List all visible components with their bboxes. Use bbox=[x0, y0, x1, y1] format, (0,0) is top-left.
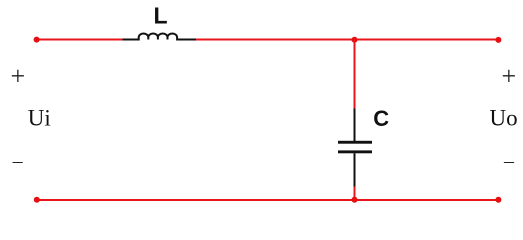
wire top-left red segment bbox=[37, 39, 124, 41]
polarity minus (output) bbox=[503, 150, 515, 172]
svg-text:–: – bbox=[12, 150, 24, 172]
inductor L bbox=[123, 34, 198, 40]
wire vertical red lower segment bbox=[354, 187, 356, 201]
wire capacitor top lead (black) bbox=[354, 109, 356, 142]
node top junction bbox=[352, 37, 358, 43]
node bottom-right terminal bbox=[495, 197, 501, 203]
node bottom-left terminal bbox=[34, 197, 40, 203]
polarity plus (input) bbox=[10, 61, 25, 90]
svg-text:+: + bbox=[10, 61, 25, 90]
label L bbox=[153, 3, 167, 29]
svg-text:L: L bbox=[153, 3, 167, 29]
svg-text:C: C bbox=[373, 106, 389, 131]
polarity plus (output) bbox=[501, 61, 516, 90]
wire bottom red bbox=[37, 199, 499, 201]
node top-right terminal bbox=[495, 37, 501, 43]
node top-left terminal bbox=[34, 37, 40, 43]
wire top-right red segment bbox=[196, 39, 498, 41]
polarity minus (input) bbox=[12, 150, 24, 172]
svg-text:Ui: Ui bbox=[28, 106, 51, 131]
wire capacitor bottom lead (black) bbox=[354, 153, 356, 187]
label Ui bbox=[28, 106, 51, 131]
svg-text:+: + bbox=[501, 61, 516, 90]
node bottom junction bbox=[352, 197, 358, 203]
capacitor C bbox=[338, 141, 372, 153]
svg-text:Uo: Uo bbox=[490, 106, 518, 131]
wire vertical red upper segment bbox=[354, 40, 356, 110]
label C bbox=[373, 106, 389, 131]
svg-text:–: – bbox=[503, 150, 515, 172]
label Uo bbox=[490, 106, 518, 131]
